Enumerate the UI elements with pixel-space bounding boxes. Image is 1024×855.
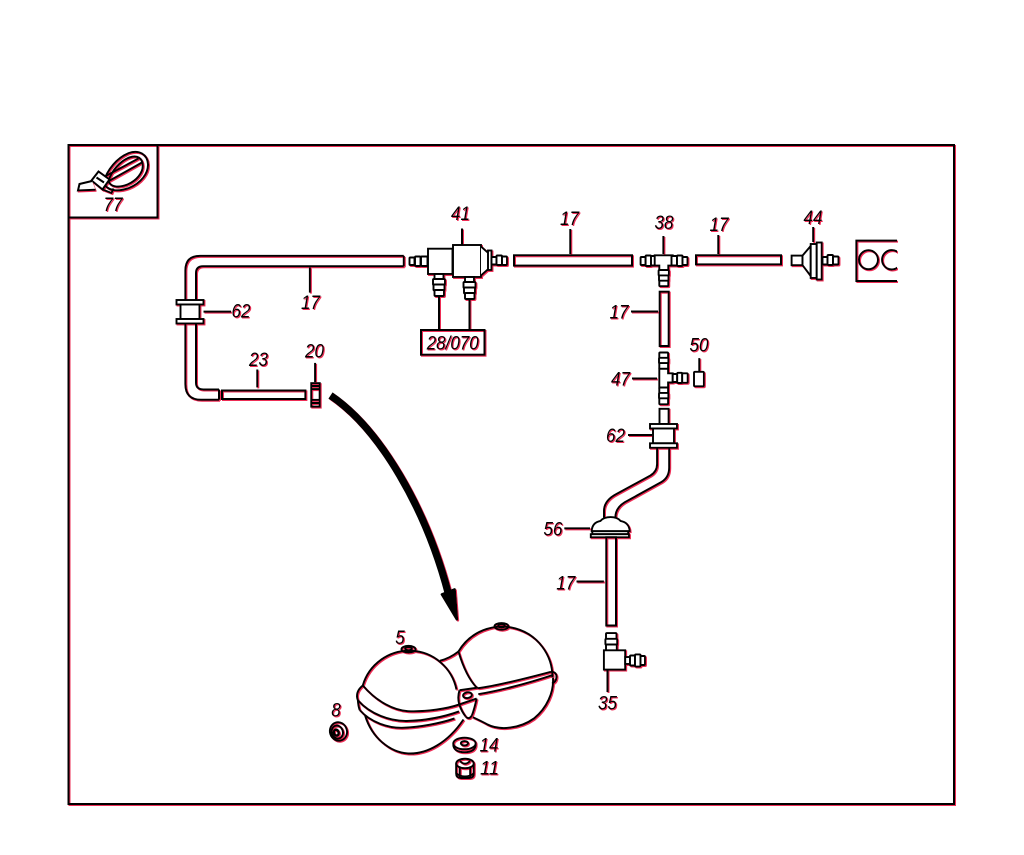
svg-text:35: 35 [598,693,617,715]
label 47 [632,378,657,380]
grommet 62 (right) [650,409,677,448]
reservoir 5 [357,623,557,753]
label 17 (upper right) [717,235,719,254]
arrow to reservoir [331,396,449,595]
label 17 (vertical hose) [631,311,658,313]
label 17 (middle) [569,229,571,254]
svg-text:62: 62 [606,425,625,447]
label 20 [314,363,316,382]
svg-text:28/070: 28/070 [426,333,479,355]
svg-text:62: 62 [232,301,251,323]
clamp 56 [591,517,630,537]
label 44 [812,227,814,242]
connector 20 [311,383,319,406]
svg-text:47: 47 [611,369,631,391]
label 35 [607,670,609,692]
hose 23 [222,391,305,400]
washer 14 [453,738,475,753]
svg-text:38: 38 [655,212,674,234]
svg-text:50: 50 [690,335,709,357]
leader lines to 28/070 box [438,296,440,330]
svg-text:11: 11 [480,758,499,780]
label 41 [461,229,463,246]
label 17 (lower) [577,581,604,583]
svg-text:41: 41 [451,203,470,225]
svg-text:20: 20 [304,341,324,363]
label 62 (right) [628,434,652,436]
cable-tie icon 77 [78,152,148,193]
pipe (left loop) [185,256,403,400]
grommet 8 [328,720,350,743]
label 38 [662,236,664,254]
svg-text:77: 77 [104,194,124,216]
svg-text:17: 17 [301,292,321,314]
label 56 [564,527,590,529]
nut 11 [456,759,474,778]
plug 50 [694,372,704,387]
elbow 35 [604,633,645,670]
hose 17 (middle) [514,255,632,265]
svg-text:5: 5 [395,627,405,649]
svg-text:17: 17 [556,573,576,595]
label 50 [698,358,700,371]
label 23 [256,370,258,388]
svg-text:14: 14 [480,735,499,757]
box 28/070 [421,330,485,355]
svg-text:17: 17 [710,214,730,236]
legend box 77 [69,145,158,218]
S-pipe from grommet to clamp [604,448,669,518]
check valve 44 [792,243,839,280]
svg-text:8: 8 [331,700,341,722]
valve 41 [410,245,508,299]
pump housing (clipped) [856,241,901,281]
svg-text:17: 17 [560,208,580,230]
frame border [69,145,955,804]
hose 17 (vertical below tee 38) [660,292,669,346]
tee 38 [641,255,688,286]
hose 17 (upper right) [696,255,781,264]
svg-text:56: 56 [544,519,563,541]
svg-text:44: 44 [804,207,823,229]
label 17 (top left hose) [309,267,311,292]
svg-text:17: 17 [610,302,630,324]
tee 47 [659,353,688,405]
label 62 (left) [204,311,232,313]
hose 17 (lower vertical) [606,537,616,625]
grommet 62 (left) [177,300,204,324]
svg-text:23: 23 [248,349,268,371]
